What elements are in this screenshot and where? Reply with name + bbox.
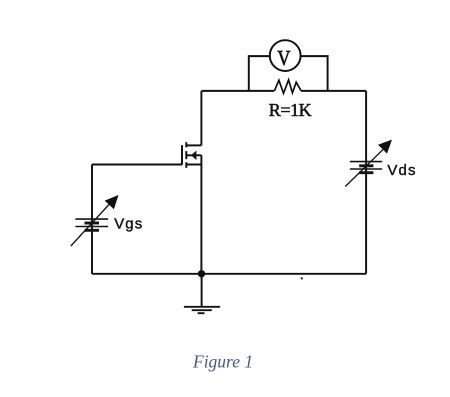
svg-text:R=1K: R=1K [269,100,312,120]
svg-text:Vds: Vds [387,162,416,179]
svg-text:Vgs: Vgs [114,216,143,233]
svg-text:Figure 1: Figure 1 [192,351,253,371]
svg-text:V: V [277,48,290,71]
